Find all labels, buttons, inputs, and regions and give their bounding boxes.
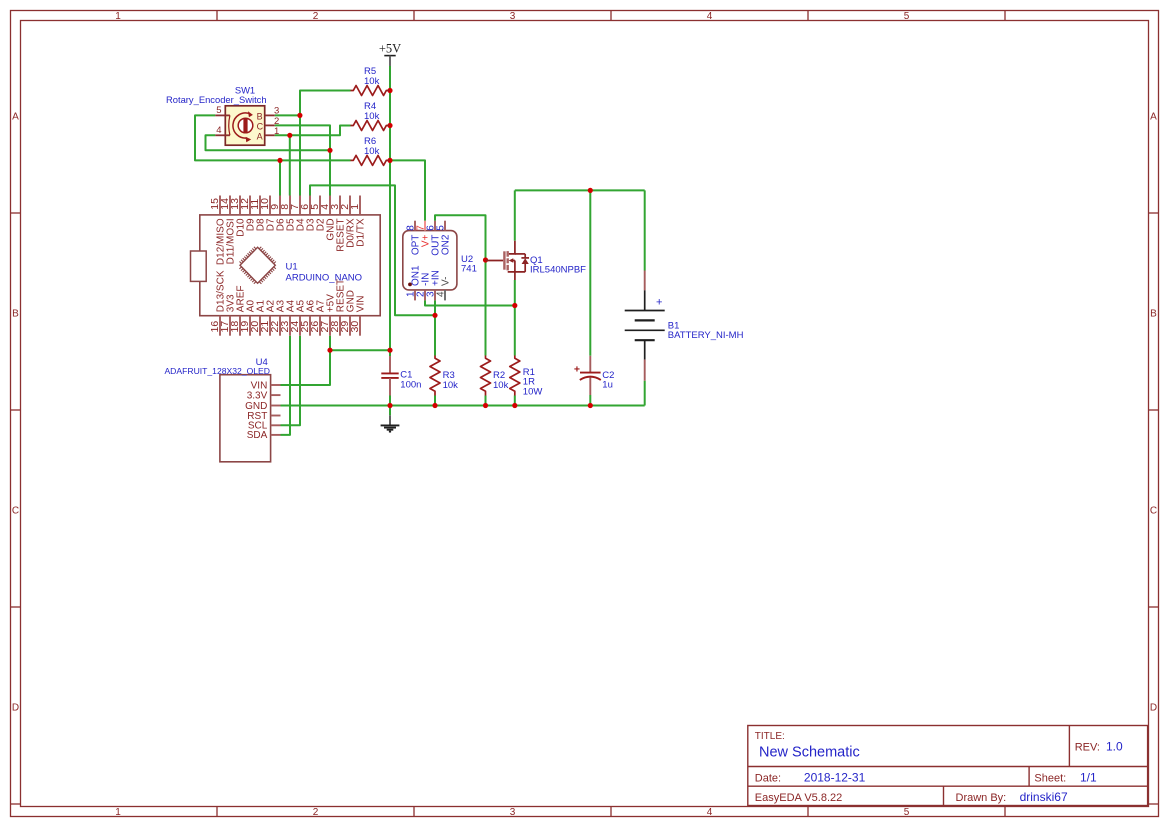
wire C2 top vertical — [589, 190, 591, 355]
ic U4 ADAFRUIT_128X32_OLED — [220, 375, 281, 462]
wire U2 pin6 OUT to gate node and R2 — [435, 215, 486, 355]
svg-text:TITLE:: TITLE: — [755, 731, 785, 742]
svg-text:4: 4 — [707, 11, 713, 22]
wire C2 bottom — [589, 395, 591, 406]
wire net B down to Arduino pin7 — [299, 115, 301, 195]
svg-text:BATTERY_NI-MH: BATTERY_NI-MH — [668, 330, 744, 341]
wire gnd rail horizontal — [281, 405, 645, 407]
capacitor C1 100n — [381, 356, 398, 396]
svg-text:B: B — [257, 112, 263, 122]
svg-text:ON2: ON2 — [440, 234, 451, 255]
wire OLED SCL to Arduino A5 — [281, 336, 301, 426]
wire +5V rail vertical — [389, 66, 391, 350]
wire Arduino +5V pin27 to node — [329, 336, 331, 351]
svg-text:EasyEDA V5.8.22: EasyEDA V5.8.22 — [755, 792, 842, 804]
title block — [748, 726, 1148, 806]
svg-text:4: 4 — [707, 807, 713, 818]
svg-text:ARDUINO_NANO: ARDUINO_NANO — [286, 273, 363, 284]
svg-text:4: 4 — [216, 125, 221, 136]
wire net A down to Arduino pin8 — [289, 135, 291, 195]
resistor R2 — [481, 356, 491, 396]
wire R1 bottom to gnd rail — [514, 396, 516, 406]
svg-text:Drawn By:: Drawn By: — [956, 792, 1007, 804]
wire R6 right to U2 V+ pin7 — [390, 160, 425, 220]
svg-text:D: D — [12, 703, 19, 714]
wire node to C1 node — [330, 349, 390, 351]
svg-text:2018-12-31: 2018-12-31 — [804, 770, 866, 784]
frame row ticks left — [11, 212, 21, 214]
svg-text:3: 3 — [510, 807, 516, 818]
wire SW1 pin1 A to R4 — [275, 126, 351, 136]
wire U2 pin3 down through node to R3 — [434, 300, 436, 355]
U1 qfp chip diamond — [240, 247, 275, 283]
svg-text:4: 4 — [435, 291, 446, 297]
wire node to R1 top — [514, 306, 516, 356]
svg-text:C: C — [257, 122, 264, 132]
svg-text:C: C — [12, 506, 19, 517]
wire top rail drain to battery — [515, 189, 645, 191]
wire battery top — [644, 190, 646, 270]
wire OLED SDA to Arduino A4 — [281, 336, 291, 435]
wire Q1 source down to node — [514, 280, 516, 306]
svg-text:5: 5 — [904, 807, 910, 818]
wire C1 bottom — [389, 396, 391, 406]
svg-text:10k: 10k — [364, 111, 380, 122]
resistor R4 — [351, 121, 390, 131]
svg-text:10k: 10k — [443, 380, 459, 391]
wire gnd stub below rail — [389, 406, 391, 416]
resistor R3 — [430, 356, 440, 396]
svg-text:+: + — [656, 297, 662, 309]
resistor R5 — [351, 86, 390, 96]
wire SW1 pin4 to net C — [206, 135, 331, 150]
svg-text:5: 5 — [216, 105, 221, 116]
capacitor C2 1u polarized — [574, 356, 601, 395]
ic U2 741 — [403, 221, 457, 301]
svg-text:B: B — [12, 309, 19, 320]
switch SW1 rotary encoder — [215, 105, 279, 145]
svg-text:drinski67: drinski67 — [1020, 790, 1068, 804]
svg-text:B: B — [1150, 309, 1157, 320]
transistor Q1 IRL540NPBF — [486, 241, 530, 280]
svg-text:+5V: +5V — [379, 42, 401, 56]
wire Arduino D3 pin6 to U2 +IN — [310, 185, 435, 315]
svg-text:IRL540NPBF: IRL540NPBF — [530, 265, 586, 276]
svg-text:1/1: 1/1 — [1080, 770, 1097, 784]
wire R5 left to net B — [300, 91, 351, 116]
wire SW1 pin5 to R6 net — [195, 115, 351, 160]
svg-text:2: 2 — [313, 807, 319, 818]
svg-text:U1: U1 — [286, 262, 298, 273]
svg-text:100n: 100n — [400, 380, 421, 391]
svg-text:Sheet:: Sheet: — [1034, 772, 1066, 784]
svg-text:ADAFRUIT_128X32_OLED: ADAFRUIT_128X32_OLED — [164, 366, 270, 376]
svg-text:10k: 10k — [364, 76, 380, 87]
svg-text:3.3V: 3.3V — [247, 390, 268, 401]
wire Q1 drain up — [514, 190, 516, 240]
svg-text:10k: 10k — [493, 380, 509, 391]
svg-text:3: 3 — [274, 105, 279, 116]
wire SW1 pin3 B to Arduino D4 — [275, 114, 300, 116]
svg-text:A: A — [1150, 112, 1157, 123]
svg-text:V-: V- — [440, 277, 451, 286]
svg-text:1: 1 — [115, 11, 121, 22]
svg-text:A: A — [12, 112, 19, 123]
wire R3 bottom — [434, 396, 436, 406]
svg-text:REV:: REV: — [1075, 742, 1100, 754]
frame column ticks top — [216, 11, 218, 21]
svg-text:Rotary_Encoder_Switch: Rotary_Encoder_Switch — [166, 94, 267, 105]
wire C1 top — [389, 350, 391, 356]
U1 usb connector box — [191, 251, 207, 281]
battery B1 BATTERY_NI-MH — [625, 271, 665, 381]
wire net D6 down to Arduino pin9 — [279, 160, 281, 195]
svg-text:Date:: Date: — [755, 772, 781, 784]
ground — [389, 415, 391, 425]
svg-text:New Schematic: New Schematic — [759, 745, 860, 761]
wire battery bottom — [644, 381, 646, 406]
svg-text:D: D — [1150, 703, 1157, 714]
svg-text:1: 1 — [115, 807, 121, 818]
frame column ticks bottom — [216, 807, 218, 817]
wire U2 pin2 -IN to R1 top node — [425, 300, 515, 305]
svg-text:C: C — [1150, 506, 1157, 517]
svg-text:1: 1 — [274, 126, 279, 137]
svg-text:1: 1 — [349, 204, 361, 210]
svg-text:+: + — [574, 364, 580, 376]
resistor R6 — [351, 155, 390, 165]
svg-text:3: 3 — [510, 11, 516, 22]
wire node down to OLED VIN — [281, 350, 331, 385]
wire R2 bottom — [485, 396, 487, 406]
svg-text:2: 2 — [313, 11, 319, 22]
svg-text:D1/TX: D1/TX — [355, 218, 366, 247]
svg-text:10W: 10W — [523, 387, 543, 398]
svg-text:30: 30 — [349, 321, 361, 333]
svg-text:10k: 10k — [364, 146, 380, 157]
svg-text:741: 741 — [461, 264, 477, 275]
resistor R1 — [510, 356, 520, 396]
svg-text:5: 5 — [435, 225, 446, 231]
svg-text:5: 5 — [904, 11, 910, 22]
frame row ticks right — [1149, 212, 1159, 214]
svg-text:A: A — [257, 132, 263, 142]
junction dots — [387, 88, 392, 93]
svg-text:SDA: SDA — [247, 430, 268, 441]
svg-text:1.0: 1.0 — [1106, 740, 1123, 754]
ic U1 ARDUINO_NANO — [200, 196, 380, 336]
svg-text:VIN: VIN — [355, 296, 366, 313]
wire SW1 pin2 C to Arduino pin4 — [275, 125, 330, 195]
svg-text:1u: 1u — [602, 380, 613, 391]
